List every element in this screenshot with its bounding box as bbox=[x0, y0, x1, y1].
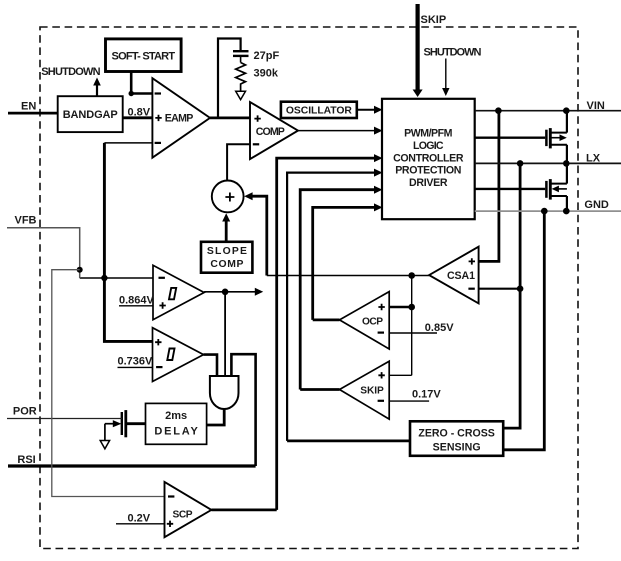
wire VIN sense to CSA1 bbox=[479, 111, 499, 262]
wire SKIP comparator output bbox=[300, 388, 339, 391]
svg-text:CONTROLLER: CONTROLLER bbox=[393, 152, 464, 164]
capacitor C1 27pF bbox=[233, 50, 279, 63]
PWM logic box U1 bbox=[382, 99, 475, 219]
wire Q2 drain to LX bbox=[566, 163, 568, 183]
svg-text:BANDGAP: BANDGAP bbox=[63, 109, 118, 121]
wire OCP/SKIP sense branch bbox=[411, 276, 413, 376]
wire CMP2 output to AND bbox=[204, 355, 218, 376]
svg-text:COMP: COMP bbox=[256, 126, 285, 138]
wire VFB trunk (to 0.736V comp) bbox=[104, 143, 152, 342]
wire CMP1 - input (VFB) bbox=[80, 277, 153, 279]
AND gate U7 bbox=[210, 376, 239, 409]
wire Q1 drain to VIN bbox=[566, 111, 568, 133]
wire lower gate bbox=[475, 188, 546, 190]
wire zero-cross output bbox=[287, 439, 410, 442]
op-amp EAMP bbox=[152, 78, 210, 158]
wire upper gate bbox=[475, 136, 546, 138]
svg-text:LOGIC: LOGIC bbox=[413, 140, 444, 152]
shutdown arrow from bandgap bbox=[41, 66, 101, 96]
zero-cross sensing box U6 bbox=[410, 421, 503, 456]
wire Q2 source to GND bbox=[566, 196, 568, 211]
wire OCP to PWM input bbox=[313, 207, 378, 320]
summing junction bbox=[212, 181, 244, 213]
node SHUTDOWN (to PWM) bbox=[424, 46, 482, 96]
wire Q1 source to LX bbox=[566, 145, 568, 164]
svg-text:2ms: 2ms bbox=[165, 410, 187, 422]
wire LX sense to zero-cross bbox=[503, 163, 520, 428]
wire EAMP output bbox=[210, 117, 250, 120]
svg-text:SHUTDOWN: SHUTDOWN bbox=[41, 66, 100, 78]
wire OCP + input bbox=[389, 306, 412, 309]
svg-text:OSCILLATOR: OSCILLATOR bbox=[286, 106, 352, 117]
junction dot soft-start corner bbox=[129, 91, 134, 96]
wire EAMP inverting input bbox=[104, 142, 152, 144]
resistor R1 390k bbox=[236, 63, 279, 91]
svg-text:PWM/PFM: PWM/PFM bbox=[404, 128, 453, 140]
svg-text:DELAY: DELAY bbox=[154, 426, 198, 438]
wire FET to delay bbox=[127, 422, 146, 425]
comparator COMP bbox=[250, 102, 298, 159]
svg-text:0.864V: 0.864V bbox=[119, 294, 155, 306]
node RSI (input pin) bbox=[8, 454, 256, 466]
transistor Q2 (low side) bbox=[546, 179, 567, 200]
svg-text:SLOPE: SLOPE bbox=[207, 246, 247, 257]
comparator CMP2 0.736V bbox=[153, 328, 204, 382]
comparator SKIP bbox=[340, 361, 390, 419]
svg-text:0.17V: 0.17V bbox=[412, 388, 441, 400]
wire CMP1 0.864V ref bbox=[119, 294, 155, 306]
wire GND sense to zero-cross bbox=[503, 211, 544, 450]
amplifier CSA1 bbox=[429, 247, 479, 304]
net GND bbox=[475, 199, 621, 214]
wire SKIP comparator to PWM input bbox=[300, 190, 377, 390]
svg-text:CSA1: CSA1 bbox=[447, 270, 475, 282]
comparator OCP bbox=[340, 292, 390, 349]
svg-text:COMP: COMP bbox=[210, 259, 243, 270]
delay box U8 bbox=[146, 403, 207, 444]
wire CMP1 output (arrow) bbox=[204, 291, 257, 293]
wire slope comp to summing (arrow up) bbox=[225, 220, 228, 242]
node VFB (input pin) bbox=[7, 214, 83, 278]
wire CMP2 0.736V ref bbox=[118, 355, 154, 367]
svg-text:0.736V: 0.736V bbox=[118, 355, 154, 367]
node POR (input pin) bbox=[7, 406, 122, 419]
wire SKIP comparator + input bbox=[389, 374, 412, 376]
svg-text:SHUTDOWN: SHUTDOWN bbox=[424, 46, 482, 58]
wire SCP to PWM input bbox=[277, 158, 378, 510]
wire CMP1 to AND bbox=[224, 292, 226, 376]
wire 0.8V bandgap to EAMP bbox=[123, 106, 153, 118]
wire CSA1 output bbox=[267, 275, 429, 277]
wire COMP output to PWM bbox=[298, 130, 378, 132]
net LX bbox=[475, 152, 621, 166]
junction dot CSA1 output bbox=[408, 272, 415, 279]
junction dot VFB trunk bbox=[101, 275, 107, 281]
slope comp box U5 bbox=[201, 242, 252, 273]
svg-text:0.2V: 0.2V bbox=[128, 513, 151, 525]
svg-text:SCP: SCP bbox=[173, 510, 193, 521]
svg-text:VIN: VIN bbox=[587, 100, 605, 112]
net VIN bbox=[475, 100, 621, 114]
svg-text:SENSING: SENSING bbox=[433, 441, 481, 453]
wire SKIP 0.17V ref bbox=[389, 388, 441, 401]
svg-text:SKIP: SKIP bbox=[360, 385, 384, 396]
comparator SCP bbox=[165, 482, 212, 537]
wire RSI to AND bbox=[231, 354, 255, 466]
svg-text:SOFT- START: SOFT- START bbox=[112, 50, 176, 62]
svg-text:VFB: VFB bbox=[15, 214, 37, 226]
wire compensation node bbox=[218, 39, 241, 118]
transistor Q1 (high side) bbox=[546, 128, 567, 148]
wire SCP output bbox=[211, 508, 276, 511]
svg-text:EAMP: EAMP bbox=[165, 113, 194, 125]
transistor Q3 (POR) bbox=[105, 410, 126, 440]
svg-text:OCP: OCP bbox=[362, 316, 383, 327]
bandgap U3 bbox=[58, 96, 123, 132]
open arrow down (comp net) bbox=[236, 91, 246, 99]
ground bbox=[100, 441, 109, 449]
svg-text:ZERO - CROSS: ZERO - CROSS bbox=[418, 427, 494, 439]
svg-text:LX: LX bbox=[586, 152, 601, 164]
wire SCP 0.2V ref bbox=[116, 513, 165, 525]
svg-text:DRIVER: DRIVER bbox=[409, 177, 448, 189]
node SKIP (top pin) bbox=[413, 4, 447, 97]
svg-text:SKIP: SKIP bbox=[421, 14, 447, 26]
wire zero-cross to PWM input bbox=[287, 173, 377, 441]
svg-text:PROTECTION: PROTECTION bbox=[395, 165, 461, 177]
svg-text:390k: 390k bbox=[254, 68, 279, 80]
wire oscillator to PWM bbox=[357, 109, 378, 111]
wire COMP inverting input from summing bbox=[227, 144, 250, 180]
wire CSA1 out to summing (arrow) bbox=[252, 196, 267, 275]
wire OCP output bbox=[313, 318, 340, 321]
node EN (input pin) bbox=[8, 100, 58, 113]
comparator CMP1 0.864V bbox=[153, 265, 204, 319]
wire soft-start to EAMP bbox=[131, 72, 152, 94]
svg-text:0.85V: 0.85V bbox=[425, 322, 454, 334]
soft-start U2 bbox=[106, 39, 182, 72]
wire VFB to SCP bbox=[52, 270, 165, 497]
wire AND to delay bbox=[207, 409, 225, 426]
junction dot LX/CSA1 bbox=[517, 285, 524, 292]
wire OCP 0.85V ref bbox=[389, 322, 454, 334]
svg-text:POR: POR bbox=[13, 406, 37, 418]
oscillator U4 bbox=[281, 102, 357, 118]
svg-text:27pF: 27pF bbox=[254, 50, 280, 62]
svg-text:GND: GND bbox=[584, 199, 609, 211]
svg-text:EN: EN bbox=[21, 100, 36, 112]
wire CSA1 inverting input to LX bbox=[479, 288, 520, 290]
